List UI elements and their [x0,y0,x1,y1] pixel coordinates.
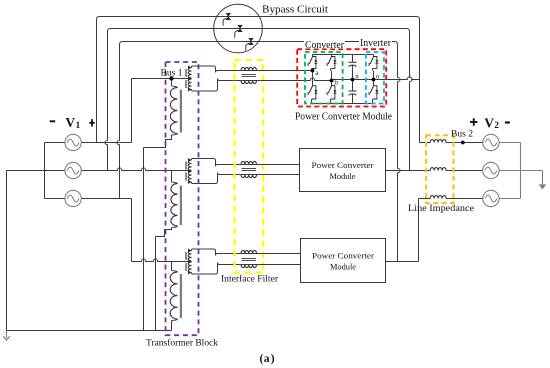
svg-text:V: V [65,115,75,130]
svg-text:b: b [334,79,338,87]
svg-text:Interface Filter: Interface Filter [221,274,279,285]
svg-text:Transformer Block: Transformer Block [146,338,218,349]
svg-text:n: n [355,73,359,81]
svg-text:): ) [271,353,275,365]
svg-text:Module: Module [330,171,356,181]
svg-text:o: o [376,73,380,81]
svg-text:1: 1 [76,120,81,130]
svg-text:2: 2 [494,120,499,130]
svg-text:Converter: Converter [305,40,344,51]
svg-text:a: a [315,69,319,77]
svg-text:Inverter: Inverter [360,38,391,49]
svg-text:Bypass Circuit: Bypass Circuit [262,3,328,15]
svg-text:V: V [484,115,494,130]
svg-text:Bus 2: Bus 2 [451,129,473,139]
svg-text:Power Converter: Power Converter [312,160,374,170]
svg-text:a: a [264,353,270,365]
svg-text:Module: Module [330,262,356,272]
svg-text:Bus 1: Bus 1 [161,68,183,78]
svg-text:Power Converter Module: Power Converter Module [295,111,392,123]
svg-text:Power Converter: Power Converter [312,251,374,261]
svg-text:Line Impedance: Line Impedance [408,204,474,214]
